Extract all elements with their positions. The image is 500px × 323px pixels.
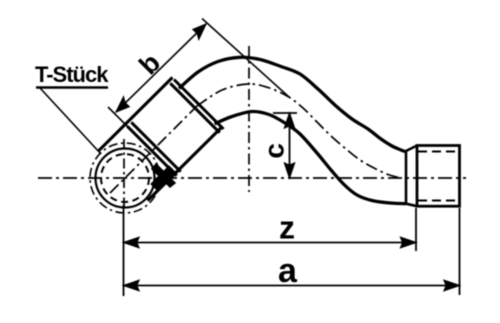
- arrowhead b upper: [193, 24, 206, 39]
- socket lower bead line: [131, 122, 180, 171]
- svg-text:a: a: [278, 252, 298, 290]
- right fitting body: [417, 146, 460, 207]
- fitting thread dashed line bottom: [418, 200, 457, 202]
- c top tangent extension line: [273, 112, 297, 114]
- dimension line b: [116, 24, 206, 112]
- arrowhead z right: [401, 237, 417, 247]
- socket lower end face: [127, 126, 176, 175]
- T-Stueck label underline: [36, 86, 108, 88]
- arrowhead z left: [124, 237, 140, 247]
- vertical centerline through left port: [123, 139, 125, 207]
- junction blob second arm: [152, 164, 175, 187]
- right fitting chamfer: [406, 146, 417, 207]
- left port inner circle (dashed): [101, 154, 149, 202]
- right extension line for a: [459, 208, 461, 295]
- arrowhead a right: [444, 280, 460, 290]
- dimension line c: [289, 113, 291, 178]
- b lower extension line (socket face plane): [108, 107, 130, 129]
- socket mouth line 1: [170, 83, 219, 132]
- arrowhead c top: [284, 113, 294, 128]
- svg-text:c: c: [259, 143, 290, 159]
- left port pitch circle (dash-dot): [90, 143, 160, 213]
- junction blob where socket meets circle: [152, 167, 175, 190]
- b upper extension line: [202, 19, 289, 98]
- pipe inner contour: [215, 111, 406, 203]
- curved pipe centerline: [197, 84, 401, 178]
- svg-text:T-Stück: T-Stück: [35, 62, 109, 87]
- 45-degree pipe axis centerline: [110, 106, 197, 193]
- fitting thread dashed line top: [418, 151, 457, 153]
- dimension line a: [124, 285, 460, 287]
- dimension line z: [124, 242, 417, 244]
- svg-text:z: z: [279, 210, 295, 246]
- horizontal centerline: [38, 177, 466, 179]
- socket upper-left side: [98, 77, 172, 151]
- vertical centerline at bend crest: [248, 46, 250, 192]
- pipe outer contour: [179, 57, 406, 152]
- socket mouth line 2: [174, 80, 224, 130]
- left extension line for z and a: [123, 205, 125, 296]
- leader line from T-Stueck label: [40, 88, 101, 154]
- left port outer circle: [96, 149, 155, 208]
- arrowhead a left: [124, 280, 140, 290]
- right extension line for z: [415, 208, 417, 251]
- arrowhead b lower: [116, 97, 129, 112]
- socket lower-right side: [148, 127, 222, 201]
- arrowhead c bottom: [284, 163, 294, 178]
